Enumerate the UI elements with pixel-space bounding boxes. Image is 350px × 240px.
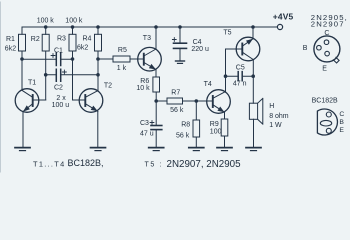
svg-text:R5: R5 [118,47,127,54]
svg-text:47 n: 47 n [233,81,247,88]
svg-text:H: H [269,103,274,110]
svg-text:100 k: 100 k [37,18,55,25]
svg-text:B: B [339,119,344,126]
svg-text:100 k: 100 k [65,18,83,25]
svg-text:1 k: 1 k [117,65,127,72]
svg-text:C3: C3 [140,120,149,127]
svg-text:6k2: 6k2 [77,45,88,52]
svg-text:10 k: 10 k [136,85,150,92]
svg-text:C: C [324,30,329,37]
svg-text:B: B [303,45,308,52]
svg-text:1 W: 1 W [269,122,282,129]
svg-text:+4V5: +4V5 [273,12,294,22]
svg-text:T1: T1 [28,80,36,87]
svg-text:R7: R7 [171,90,180,97]
svg-text:R1: R1 [6,36,15,43]
svg-text:C2: C2 [54,85,63,92]
svg-text:R4: R4 [83,36,92,43]
svg-text:2N2907, 2N2905: 2N2907, 2N2905 [167,159,242,170]
svg-text:100 u: 100 u [52,102,70,109]
svg-text:E: E [339,127,344,134]
svg-text:BC182B: BC182B [312,98,338,105]
svg-text:E: E [322,65,327,72]
svg-text:R2: R2 [31,36,40,43]
svg-text:C: C [339,111,344,118]
svg-text:C1: C1 [54,48,63,55]
svg-text:8 ohm: 8 ohm [269,113,289,120]
svg-text:T4: T4 [204,81,212,88]
svg-text:T2: T2 [104,83,112,90]
svg-text:2N2907: 2N2907 [311,19,345,28]
svg-text:R8: R8 [181,122,190,129]
svg-text:C5: C5 [236,65,245,72]
svg-text:2 x: 2 x [56,95,66,102]
svg-text:6k2: 6k2 [5,46,16,53]
svg-text:T1...T4 :: T1...T4 : [33,159,72,168]
svg-text:47 u: 47 u [140,131,154,138]
svg-text:T5: T5 [223,30,231,37]
svg-text:56 k: 56 k [176,133,190,140]
svg-text:100: 100 [210,129,222,136]
svg-text:T3: T3 [143,35,151,42]
svg-text:BC182B,: BC182B, [68,158,104,168]
svg-text:C4: C4 [193,39,202,46]
svg-text:R9: R9 [210,121,219,128]
svg-text:T5 :: T5 : [145,162,163,169]
svg-text:56 k: 56 k [170,107,184,114]
svg-text:220 u: 220 u [191,46,209,53]
svg-text:R6: R6 [140,78,149,85]
svg-text:R3: R3 [57,36,66,43]
